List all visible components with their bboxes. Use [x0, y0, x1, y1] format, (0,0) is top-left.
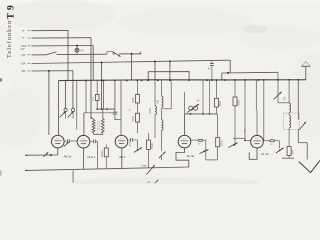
svg-text:5000: 5000 [132, 97, 135, 103]
svg-text:MD: MD [22, 69, 26, 73]
svg-text:0,5M: 0,5M [149, 108, 152, 113]
svg-text:500: 500 [292, 149, 295, 154]
svg-text:1000: 1000 [219, 100, 222, 106]
svg-text:Telefunken: Telefunken [6, 20, 13, 58]
svg-text:LW: LW [22, 53, 26, 57]
svg-text:5000: 5000 [238, 99, 241, 105]
svg-text:MA: MA [22, 62, 26, 66]
svg-text:AL 4a: AL 4a [260, 152, 269, 156]
svg-text:5000: 5000 [220, 140, 223, 146]
svg-text:5000: 5000 [132, 115, 135, 121]
svg-text:KW: KW [21, 48, 26, 51]
svg-text:ACH 1: ACH 1 [86, 155, 96, 159]
svg-text:°T: °T [22, 29, 25, 33]
svg-text:100: 100 [157, 99, 160, 104]
svg-text:0,1: 0,1 [92, 96, 95, 100]
svg-text:max: max [142, 164, 148, 167]
svg-text:AF 3a: AF 3a [186, 154, 195, 158]
svg-text:°T: °T [22, 36, 25, 40]
svg-text:5000: 5000 [151, 143, 154, 149]
svg-text:mf: mf [197, 101, 200, 103]
svg-text:T 9: T 9 [6, 5, 16, 19]
svg-text:10000: 10000 [101, 150, 104, 158]
svg-text:4000: 4000 [129, 141, 131, 147]
svg-text:mf: mf [148, 182, 151, 184]
svg-text:AB 3b: AB 3b [63, 154, 72, 158]
svg-text:6V: 6V [81, 50, 84, 53]
